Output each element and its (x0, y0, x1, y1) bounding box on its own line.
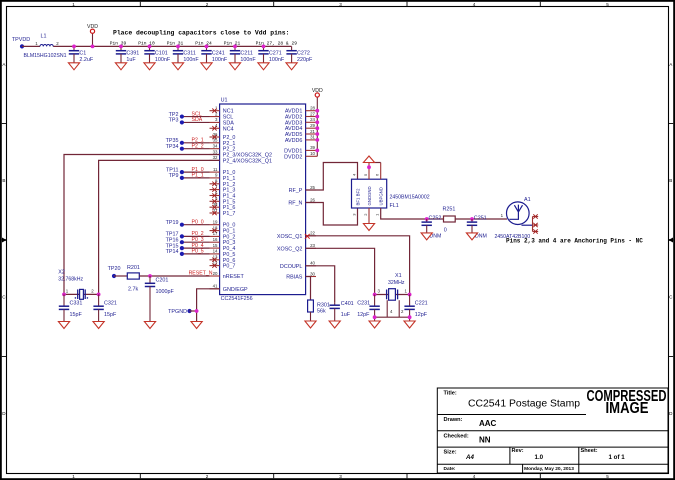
no-connect X (212, 199, 216, 203)
svg-text:100nF: 100nF (269, 57, 285, 63)
svg-text:C272: C272 (297, 50, 310, 56)
svg-text:Pins 2,3 and 4 are Anchoring P: Pins 2,3 and 4 are Anchoring Pins - NC (506, 238, 643, 245)
svg-text:C101: C101 (155, 50, 168, 56)
crystal X2 32.768kHz (75, 289, 89, 299)
svg-text:12pF: 12pF (357, 312, 370, 318)
svg-text:C221: C221 (415, 300, 428, 306)
svg-text:B: B (669, 178, 672, 183)
junction (97, 293, 101, 297)
svg-text:SDA: SDA (192, 117, 203, 123)
pin 8 P1_2 (210, 179, 236, 188)
wire R251 to antenna A1 (455, 218, 507, 220)
svg-text:16: 16 (213, 237, 218, 242)
wire DCOUPL to C401 (306, 266, 335, 302)
no-connect X (212, 205, 216, 209)
ground (229, 63, 240, 70)
test point TPGND (187, 309, 191, 313)
wire P2_4 to X2 (99, 160, 220, 294)
wire XOSC_Q1 to X1 (306, 236, 410, 295)
svg-text:39: 39 (310, 145, 315, 150)
capacitor C252 (422, 219, 432, 233)
capacitor C211 (230, 46, 240, 62)
svg-text:C252: C252 (429, 216, 442, 222)
junction (373, 293, 377, 297)
zone tick (top) (539, 2, 541, 7)
capacitor C241 (201, 46, 211, 62)
svg-text:P0_5: P0_5 (192, 249, 204, 255)
pin 13 P0_6 (210, 255, 236, 264)
wire XOSC_Q2 to X1 (306, 248, 375, 294)
pins 2,3,4 (A1) anchoring stubs (533, 217, 539, 232)
svg-text:P0_0: P0_0 (192, 220, 204, 226)
wire net SCL (182, 116, 210, 118)
pin 9 P1_1 (210, 173, 236, 182)
svg-text:C391: C391 (126, 50, 139, 56)
svg-text:5: 5 (606, 474, 609, 479)
svg-text:1 of 1: 1 of 1 (609, 454, 626, 461)
junction (315, 109, 319, 113)
svg-text:0: 0 (444, 227, 447, 233)
svg-text:CC2541 Postage Stamp: CC2541 Postage Stamp (468, 399, 580, 410)
junction (195, 309, 199, 313)
wire TPVDD to L1 (22, 45, 40, 47)
junction (367, 165, 371, 169)
svg-text:17: 17 (213, 231, 218, 236)
svg-text:X1: X1 (395, 273, 402, 279)
svg-text:P1_1: P1_1 (192, 173, 204, 179)
pin 27 AVDD2 (285, 111, 317, 120)
pin 31 AVDD6 (285, 135, 317, 144)
svg-text:C331: C331 (70, 300, 83, 306)
pin 22 XOSC_Q1 (277, 231, 316, 240)
pin 7 P1_3 (210, 184, 236, 193)
svg-text:AVDD6: AVDD6 (285, 138, 303, 144)
capacitor C272 (286, 46, 296, 62)
svg-text:A1: A1 (524, 197, 531, 203)
svg-text:Place decoupling capacitors cl: Place decoupling capacitors close to Vdd… (113, 30, 289, 37)
wire net P0_2 (182, 235, 210, 237)
ground (369, 321, 380, 328)
capacitor C221 (404, 295, 414, 322)
wire TPGND (190, 310, 197, 312)
svg-text:15pF: 15pF (70, 312, 83, 318)
svg-text:C231: C231 (357, 300, 370, 306)
pin 14 P0_5 (210, 249, 236, 258)
zone tick (right) (669, 356, 674, 358)
test point TPVDD (20, 44, 24, 48)
svg-text:1: 1 (72, 2, 75, 7)
no-connect X (533, 223, 537, 227)
svg-text:Monday, May 20, 2013: Monday, May 20, 2013 (524, 466, 574, 472)
pin 1 NC1 (210, 106, 234, 115)
svg-text:20: 20 (213, 271, 218, 276)
svg-text:NN: NN (479, 435, 491, 444)
svg-text:41: 41 (213, 284, 218, 289)
svg-text:C401: C401 (341, 301, 354, 307)
svg-text:X2: X2 (58, 270, 65, 276)
wire net P1_1 (182, 177, 210, 179)
pin 4 (X1) case (386, 300, 388, 317)
svg-text:10: 10 (310, 151, 315, 156)
wire RESET_N (139, 275, 209, 277)
pin 41 GND/EGP (210, 284, 249, 293)
junction (205, 45, 209, 49)
test point TP34 (180, 147, 184, 151)
svg-text:Pin 21: Pin 21 (224, 41, 241, 47)
resistor R251 (444, 216, 456, 222)
ground (286, 63, 297, 70)
svg-text:Rev:: Rev: (512, 448, 524, 454)
svg-text:TPGND: TPGND (168, 309, 187, 315)
no-connect X (533, 229, 537, 233)
inductor L1 (40, 45, 53, 47)
svg-text:33: 33 (213, 149, 218, 154)
svg-text:31: 31 (310, 135, 315, 140)
junction (315, 138, 319, 142)
no-connect X (212, 126, 216, 130)
svg-text:100nF: 100nF (183, 57, 199, 63)
zone tick (top) (139, 2, 141, 7)
svg-text:Pin 10: Pin 10 (138, 41, 155, 47)
pin 2 SCL (210, 111, 234, 120)
pin 2 (X1) case (398, 300, 400, 317)
ground (93, 322, 104, 329)
pin 29 AVDD4 (285, 123, 317, 132)
pin 4 NC4 (210, 123, 234, 132)
svg-text:4: 4 (473, 2, 476, 7)
svg-text:C251: C251 (474, 216, 487, 222)
zone tick (right) (669, 123, 674, 125)
ground (258, 63, 269, 70)
wire FL1 pins 5-6 to ground (369, 162, 381, 164)
no-connect X (212, 182, 216, 186)
svg-text:40: 40 (310, 261, 315, 266)
test point TP35 (180, 141, 184, 145)
svg-text:TP34: TP34 (166, 144, 179, 150)
svg-text:1uF: 1uF (341, 312, 351, 318)
wire net P1_0 (182, 171, 210, 173)
svg-text:3: 3 (339, 474, 342, 479)
no-connect X (212, 258, 216, 262)
balun FL1 internal names (356, 186, 384, 205)
resistor R201 (127, 273, 139, 279)
capacitor C321 (93, 294, 103, 321)
pin 17 P0_2 (210, 231, 236, 240)
test point TP17 (180, 234, 184, 238)
balun FL1 body (352, 179, 387, 208)
svg-text:BLM15HG102SN1: BLM15HG102SN1 (24, 53, 67, 59)
zone tick (bottom) (273, 474, 275, 479)
junction (315, 149, 319, 153)
svg-text:C321: C321 (104, 300, 117, 306)
junction (408, 315, 412, 319)
capacitor C401 (330, 302, 340, 321)
pin 21 AVDD5 (285, 129, 317, 138)
svg-text:220pF: 220pF (297, 57, 313, 63)
pin 34 P2_2 (210, 144, 236, 153)
svg-text:1uF: 1uF (126, 57, 136, 63)
svg-text:35: 35 (213, 138, 218, 143)
svg-text:2450BM15A0002: 2450BM15A0002 (390, 194, 430, 200)
svg-text:100nF: 100nF (155, 57, 171, 63)
svg-text:23: 23 (310, 243, 315, 248)
pin 37 P1_7 (210, 208, 236, 217)
svg-text:15: 15 (213, 243, 218, 248)
svg-text:Title:: Title: (444, 390, 457, 396)
svg-text:P0_7: P0_7 (223, 264, 236, 270)
svg-text:11: 11 (213, 167, 218, 172)
pin 28 AVDD1 (285, 106, 317, 115)
junction (425, 217, 429, 221)
wire X1 case ground (375, 316, 410, 318)
no-connect X (212, 193, 216, 197)
svg-text:14: 14 (213, 249, 218, 254)
svg-text:1.0: 1.0 (535, 454, 544, 461)
pin 30 RBIAS (286, 271, 316, 280)
svg-text:32MHz: 32MHz (388, 280, 405, 286)
svg-text:Size:: Size: (444, 450, 457, 456)
capacitor C101 (144, 46, 154, 62)
ground (68, 63, 79, 70)
svg-text:5: 5 (606, 2, 609, 7)
svg-text:IMAGE: IMAGE (606, 400, 649, 417)
pin 38 P1_6 (210, 202, 236, 211)
pin 15 P0_4 (210, 243, 236, 252)
wire net P2_1 (182, 142, 210, 144)
capacitor C271 (258, 46, 268, 62)
test point TP2 (180, 114, 184, 118)
pin 19 P0_0 (210, 220, 236, 229)
pin 39 DVDD1 (284, 145, 317, 154)
no-connect X (212, 109, 216, 113)
svg-text:FL1: FL1 (390, 203, 399, 209)
pin 40 DCOUPL (280, 261, 316, 270)
centre fold mark (right) (669, 238, 674, 243)
zone tick (bottom) (539, 474, 541, 479)
svg-text:VDD: VDD (312, 88, 323, 94)
junction (315, 115, 319, 119)
svg-text:AAC: AAC (479, 419, 497, 428)
svg-text:TP9: TP9 (169, 173, 179, 179)
no-connect X (212, 211, 216, 215)
op-amp/IC U1 body (220, 104, 306, 295)
svg-text:VDD: VDD (87, 24, 98, 30)
pin 23 XOSC_Q2 (277, 243, 316, 252)
svg-text:C1: C1 (79, 50, 86, 56)
test point TP16 (180, 240, 184, 244)
test point TP11 (180, 170, 184, 174)
svg-text:24: 24 (310, 117, 315, 122)
no-connect X (212, 187, 216, 191)
power port VDD (top) (87, 24, 98, 46)
svg-text:C311: C311 (183, 50, 196, 56)
ground (up) (363, 156, 374, 163)
svg-text:TP14: TP14 (166, 249, 179, 255)
ground (115, 63, 126, 70)
capacitor C391 (116, 46, 126, 62)
pin 3 SDA (210, 117, 235, 126)
svg-text:L1: L1 (41, 34, 47, 40)
zone tick (top) (406, 2, 408, 7)
junction (408, 293, 412, 297)
capacitor C331 (59, 294, 69, 321)
zone tick (bottom) (139, 474, 141, 479)
svg-text:NC4: NC4 (223, 126, 234, 132)
svg-text:12pF: 12pF (415, 312, 428, 318)
svg-text:DCOUPL: DCOUPL (280, 264, 302, 270)
wire GND/EGP to ground (197, 289, 220, 322)
svg-text:CC2541F256: CC2541F256 (221, 296, 253, 302)
svg-text:BF1 BF2: BF1 BF2 (356, 188, 361, 206)
svg-text:21: 21 (310, 129, 315, 134)
junction (315, 120, 319, 124)
svg-text:19: 19 (213, 220, 218, 225)
pin 16 P0_3 (210, 237, 236, 246)
pin 25 RF_P (289, 185, 316, 194)
svg-text:R201: R201 (127, 265, 140, 271)
svg-text:30: 30 (310, 271, 315, 276)
svg-text:1000pF: 1000pF (156, 289, 175, 295)
ground (305, 321, 316, 328)
pin 5 (FL1) stub (368, 163, 370, 180)
svg-text:UBPGND: UBPGND (379, 187, 384, 205)
zone tick (left) (2, 123, 7, 125)
svg-text:C271: C271 (269, 50, 282, 56)
power port VDD (U1 right) (312, 88, 323, 156)
stamp COMPRESSED IMAGE (587, 388, 667, 417)
ground (172, 63, 183, 70)
svg-text:U1: U1 (221, 98, 228, 104)
svg-text:C201: C201 (156, 278, 169, 284)
pin 5 P1_5 (210, 196, 236, 205)
pin 36 P2_0 (210, 132, 236, 141)
capacitor C311 (173, 46, 183, 62)
ground (144, 63, 155, 70)
svg-text:DVDD2: DVDD2 (284, 154, 302, 160)
ground (191, 322, 202, 329)
svg-text:56k: 56k (317, 308, 326, 314)
svg-text:Pin 39: Pin 39 (110, 41, 127, 47)
svg-text:P2_4/XOSC32K_Q1: P2_4/XOSC32K_Q1 (223, 158, 272, 164)
ground (421, 233, 432, 240)
zone tick (right) (669, 239, 674, 241)
svg-text:34: 34 (213, 144, 218, 149)
zone tick (top) (273, 2, 275, 7)
svg-text:27: 27 (310, 111, 315, 116)
pin 20 nRESET (210, 271, 245, 280)
test point TP3 (180, 120, 184, 124)
svg-text:TP3: TP3 (169, 118, 179, 124)
pin numbers FL1 bottom (352, 213, 380, 216)
ground (201, 63, 212, 70)
no-connect X (212, 135, 216, 139)
capacitor C251 (467, 219, 477, 233)
pin 18 P0_1 (210, 225, 236, 234)
no-connect X (212, 228, 216, 232)
ground (329, 321, 340, 328)
capacitor C231 (369, 295, 379, 322)
svg-text:R251: R251 (443, 206, 456, 212)
wire RF_N to FL1 pin 3 (306, 203, 358, 226)
wire net SDA (182, 121, 210, 123)
pin 33 P2_3/XOSC32K_Q2 (210, 149, 272, 158)
svg-text:100nF: 100nF (212, 57, 228, 63)
svg-text:32.768kHz: 32.768kHz (58, 277, 83, 283)
wire net P0_4 (182, 247, 210, 249)
no-connect X (533, 214, 537, 218)
svg-text:Pin 24: Pin 24 (195, 41, 212, 47)
pin 24 AVDD3 (285, 117, 317, 126)
junction (91, 45, 95, 49)
svg-text:P2_2: P2_2 (192, 144, 204, 150)
junction (176, 45, 180, 49)
svg-text:C241: C241 (212, 50, 225, 56)
junction (315, 126, 319, 130)
pin 2 (FL1) stub (368, 208, 370, 224)
svg-text:2.7k: 2.7k (128, 286, 138, 292)
svg-text:GND/EGP: GND/EGP (223, 287, 248, 293)
svg-text:GNDGND: GNDGND (367, 186, 372, 205)
test point TP15 (180, 246, 184, 250)
wire net P2_2 (182, 148, 210, 150)
junction (315, 132, 319, 136)
junction (72, 45, 76, 49)
no-connect X (305, 234, 310, 239)
svg-text:P1_7: P1_7 (223, 211, 236, 217)
svg-text:B: B (2, 178, 5, 183)
test point TP9 (180, 176, 184, 180)
svg-text:XOSC_Q1: XOSC_Q1 (277, 234, 302, 240)
svg-text:nRESET: nRESET (223, 274, 245, 280)
crystal X1 32MHz (387, 289, 398, 301)
junction (233, 45, 237, 49)
wire net P0_5 (182, 253, 210, 255)
junction (148, 274, 152, 278)
svg-text:15pF: 15pF (104, 312, 117, 318)
pin 26 RF_N (288, 197, 316, 206)
svg-text:RF_N: RF_N (288, 201, 302, 207)
svg-text:28: 28 (310, 106, 315, 111)
title block labels (444, 390, 598, 472)
junction (148, 45, 152, 49)
ground (363, 224, 374, 231)
junction (119, 45, 123, 49)
svg-text:22: 22 (310, 231, 315, 236)
resistor R301 (308, 300, 314, 312)
svg-text:Drawn:: Drawn: (444, 417, 463, 423)
ground (144, 322, 155, 329)
capacitor C201 (145, 276, 155, 322)
pin 11 P1_0 (210, 167, 236, 176)
centre fold mark (left) (2, 238, 7, 243)
pin 12 P0_7 (210, 260, 236, 269)
pin 10 DVDD2 (284, 151, 317, 160)
zone tick (left) (2, 239, 7, 241)
wire RBIAS to R301 (306, 277, 311, 301)
svg-text:4: 4 (473, 474, 476, 479)
ground (58, 322, 69, 329)
svg-text:29: 29 (310, 123, 315, 128)
wire RF_P to FL1 pin 4 (306, 163, 358, 191)
junction (62, 293, 66, 297)
svg-text:Checked:: Checked: (444, 434, 469, 440)
junction (470, 217, 474, 221)
svg-text:Sheet:: Sheet: (581, 448, 598, 454)
svg-text:XOSC_Q2: XOSC_Q2 (277, 246, 302, 252)
no-connect X (212, 263, 216, 267)
pin 32 P2_4/XOSC32K_Q1 (210, 155, 272, 164)
wire VDD rail (53, 45, 291, 47)
